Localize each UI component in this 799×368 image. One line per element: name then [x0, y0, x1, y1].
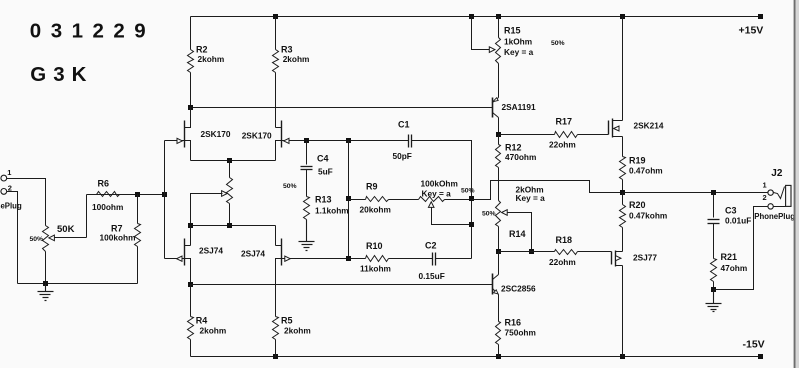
svg-text:47ohm: 47ohm	[721, 263, 748, 273]
resistor R19	[620, 157, 626, 180]
junction R17 row / R12	[496, 132, 501, 137]
svg-text:R21: R21	[721, 252, 738, 262]
svg-text:2SA1191: 2SA1191	[502, 102, 537, 112]
svg-text:1: 1	[763, 181, 767, 190]
svg-text:C1: C1	[398, 120, 410, 130]
wire 2SC2856 emitter to R16	[498, 295, 500, 322]
svg-text:50pF: 50pF	[393, 151, 412, 161]
wire R14 wiper	[508, 213, 532, 252]
svg-text:2SK170: 2SK170	[201, 129, 231, 139]
junction 2nd stage column / wiper	[469, 222, 474, 227]
junction ground rail / pot	[43, 281, 48, 286]
resistor R3	[273, 50, 279, 73]
window border	[796, 0, 799, 368]
transistor Q7 2SC2856	[492, 274, 494, 295]
svg-text:50%: 50%	[551, 40, 565, 47]
junction R21 / J2 return	[711, 287, 716, 292]
wire output row	[623, 192, 768, 194]
svg-text:100ohm: 100ohm	[92, 202, 123, 212]
svg-text:50%: 50%	[30, 236, 44, 243]
junction R6 row / gate column	[162, 192, 167, 197]
svg-text:22ohm: 22ohm	[549, 257, 576, 267]
wire left 2SJ74 source	[190, 226, 192, 246]
resistor R4	[188, 317, 194, 340]
svg-text:R10: R10	[366, 241, 383, 251]
wire R6 row	[87, 194, 165, 196]
wire R20 top lead	[622, 193, 624, 205]
transistor Q2 2SK170 right	[281, 121, 283, 148]
svg-text:-15V: -15V	[743, 339, 765, 351]
junction 2nd stage column / R9 row	[469, 196, 474, 201]
wire R15 bottom to 2SA1191 emitter	[498, 64, 500, 98]
wire N tail	[191, 160, 276, 162]
wire P tail	[191, 225, 276, 227]
connector J2 pin 1	[768, 190, 773, 195]
svg-text:R2: R2	[196, 45, 208, 55]
wire R7 bottom to ground rail	[137, 247, 139, 284]
svg-text:2: 2	[8, 183, 12, 192]
transistor Q1 2SK170 left	[184, 121, 186, 148]
svg-text:R13: R13	[315, 195, 332, 205]
svg-text:1: 1	[7, 168, 11, 177]
potentiometer R14	[496, 201, 501, 227]
svg-text:2kohm: 2kohm	[284, 326, 311, 336]
svg-text:R3: R3	[281, 45, 293, 55]
wire R15 top lead	[498, 17, 500, 38]
svg-text:R17: R17	[556, 117, 573, 127]
svg-text:2kohm: 2kohm	[198, 54, 225, 64]
transistor Q3 2SJ74 left	[184, 239, 186, 266]
wire 50K pot bottom to ground rail	[45, 252, 47, 284]
wire R18 to 2SJ77 gate	[578, 251, 612, 253]
junction top rail / 2SK214 drain	[620, 14, 625, 19]
svg-text:R12: R12	[505, 143, 522, 153]
svg-text:R5: R5	[281, 316, 293, 326]
resistor R17	[555, 132, 578, 138]
resistor R10	[366, 256, 389, 262]
svg-text:R16: R16	[505, 318, 522, 328]
connector J2 pin 2	[768, 204, 773, 209]
wire R3 bottom to right drain	[275, 73, 277, 128]
connector J1 pin 1	[1, 175, 7, 181]
wire R2 top lead	[190, 17, 192, 50]
wire C3 to R21	[713, 224, 715, 259]
resistor R5	[273, 317, 279, 340]
junction top rail / R15 wiper	[469, 14, 474, 19]
svg-text:1.1kohm: 1.1kohm	[315, 206, 349, 216]
wire R2 bottom to drain bus	[190, 73, 192, 108]
wire R19 bottom lead	[622, 180, 624, 193]
svg-text:20kohm: 20kohm	[360, 205, 391, 215]
wire 2SA1191 collector lead	[498, 118, 500, 135]
junction upper bus / R2	[188, 105, 193, 110]
transistor Q6 2SJ77	[611, 252, 613, 265]
junction R6 row / R7	[135, 192, 140, 197]
potentiometer 50K	[43, 226, 49, 252]
wire 50K wiper to R6	[55, 195, 87, 238]
wire tail pot top lead	[229, 161, 231, 178]
svg-text:031229: 031229	[30, 20, 155, 43]
wire 2SK214 source to R19	[622, 137, 624, 157]
transistor Q4 2SJ74 right	[281, 239, 283, 266]
ground R13	[306, 220, 308, 242]
wire 2nd stage column	[471, 200, 473, 259]
potentiometer tail	[227, 178, 233, 204]
wire C4 to R13	[306, 170, 308, 197]
wire gate row to C1	[307, 140, 409, 142]
svg-text:0.47kohm: 0.47kohm	[629, 211, 667, 221]
wire J2 pin2 return	[714, 207, 768, 290]
junction output row / C3	[711, 190, 716, 195]
wire R15 wiper to rail	[472, 17, 490, 50]
junction feedback column / R9	[346, 196, 351, 201]
transistor U? 2SA1191	[492, 98, 494, 118]
wire 2SK214 drain lead	[622, 17, 624, 121]
junction P tail / tail pot	[227, 223, 232, 228]
wire R18 left lead	[499, 251, 555, 253]
resistor R7	[135, 224, 141, 247]
wire R4 top lead	[190, 285, 192, 317]
svg-text:0.15uF: 0.15uF	[419, 271, 445, 281]
wire 100k pot wiper	[432, 208, 472, 225]
wire C3 top lead	[713, 193, 715, 218]
wire J1 pin1 to 50K pot top	[7, 179, 46, 226]
svg-text:0.47ohm: 0.47ohm	[629, 165, 663, 175]
wire -15V bottom rail	[191, 356, 761, 358]
resistor R6	[97, 192, 120, 197]
svg-text:5uF: 5uF	[318, 167, 333, 177]
wire R10 left lead	[349, 258, 366, 260]
svg-text:+15V: +15V	[739, 25, 764, 37]
wire +15V top rail	[191, 16, 761, 18]
wire 2SJ77 source to rail	[622, 266, 624, 357]
wire lower bus	[191, 284, 493, 286]
svg-text:R6: R6	[98, 179, 110, 189]
svg-text:2SK214: 2SK214	[634, 121, 664, 131]
wire R10 to C2	[389, 258, 433, 260]
resistor R18	[555, 250, 578, 255]
svg-text:750ohm: 750ohm	[505, 328, 536, 338]
resistor R12	[496, 145, 501, 168]
node top rail right end	[758, 14, 763, 19]
wire J1 pin2 to ground rail	[7, 192, 18, 284]
svg-text:R20: R20	[629, 200, 646, 210]
svg-text:R14: R14	[509, 229, 526, 239]
resistor R13	[304, 197, 310, 220]
wire R16 bottom lead	[498, 345, 500, 357]
svg-text:R4: R4	[196, 316, 208, 326]
capacitor C3	[708, 219, 720, 221]
svg-text:2: 2	[763, 193, 767, 202]
junction R18 row / R14	[496, 249, 501, 254]
wire right 2SJ74 source	[275, 226, 277, 246]
svg-text:100kohm: 100kohm	[100, 233, 136, 243]
wire tail pot bottom lead	[229, 204, 231, 226]
svg-text:2SK170: 2SK170	[242, 131, 272, 141]
wire right gates row	[294, 258, 349, 260]
capacitor C4	[301, 166, 313, 168]
wire R14 bottom lead	[498, 227, 500, 252]
svg-text:50%: 50%	[283, 183, 297, 190]
wire R3 top lead	[275, 17, 277, 50]
svg-text:1kOhm: 1kOhm	[504, 37, 532, 47]
junction N tail / tail pot	[227, 158, 232, 163]
svg-text:22ohm: 22ohm	[549, 140, 576, 150]
svg-text:Key = a: Key = a	[422, 189, 452, 199]
svg-text:50K: 50K	[57, 224, 75, 235]
resistor R20	[620, 205, 626, 228]
svg-text:2SC2856: 2SC2856	[501, 284, 536, 294]
wire R9 left lead	[349, 199, 366, 201]
svg-text:100kOhm: 100kOhm	[421, 179, 458, 189]
wire 100k pot right lead	[445, 199, 472, 201]
ground R21	[713, 290, 715, 304]
potentiometer R? 100kOhm	[419, 197, 445, 202]
wire 2SC2856 collector lead	[498, 252, 500, 275]
wire C2 right lead	[436, 258, 472, 260]
junction bottom rail / 2SJ77 source	[620, 354, 625, 359]
svg-text:2kohm: 2kohm	[283, 54, 310, 64]
svg-text:2kohm: 2kohm	[200, 326, 227, 336]
wire R17 to 2SK214 gate	[578, 134, 609, 136]
wire R12 bottom to R14	[498, 168, 500, 201]
resistor R2	[188, 50, 194, 73]
junction bottom rail / R16	[496, 354, 501, 359]
wire feedback column	[348, 141, 350, 259]
svg-text:J2: J2	[771, 168, 783, 179]
wire R20 bottom to 2SJ77 drain	[622, 228, 624, 252]
svg-text:11kohm: 11kohm	[360, 264, 391, 274]
svg-text:2SJ74: 2SJ74	[241, 249, 265, 259]
wire input ground rail	[18, 283, 138, 285]
wire R4 bottom lead	[190, 340, 192, 357]
transistor Q5 2SK214	[608, 121, 610, 135]
wire C1 right to 2nd stage column	[412, 141, 472, 200]
svg-text:R18: R18	[556, 235, 573, 245]
connector J1 pin 2	[1, 189, 7, 195]
wire tail pot wiper loop	[191, 194, 223, 226]
svg-text:C2: C2	[425, 241, 437, 251]
resistor R16	[496, 322, 501, 345]
capacitor C2	[432, 253, 434, 266]
svg-text:Key = a: Key = a	[504, 47, 534, 57]
svg-text:Key = a: Key = a	[516, 193, 546, 203]
resistor R21	[711, 259, 717, 282]
svg-text:R19: R19	[629, 156, 646, 166]
capacitor C1	[408, 135, 410, 148]
resistor R9	[366, 197, 389, 202]
svg-text:2SJ74: 2SJ74	[199, 246, 223, 256]
wire input node column	[164, 141, 166, 259]
junction top rail / R15	[496, 14, 501, 19]
wire R5 bottom lead	[275, 340, 277, 357]
svg-text:R9: R9	[366, 182, 378, 192]
junction top rail / R3	[273, 14, 278, 19]
wire left 2SK170 drain	[185, 108, 191, 128]
junction R18 row / wiper	[529, 249, 534, 254]
wire R21 bottom lead	[713, 282, 715, 290]
svg-text:50%: 50%	[461, 188, 475, 195]
junction gate row / C4	[304, 138, 309, 143]
wire feedback riser to output	[472, 181, 623, 200]
wire R17 left lead	[499, 134, 555, 136]
svg-text:0.01uF: 0.01uF	[725, 216, 751, 226]
svg-text:C4: C4	[317, 154, 329, 164]
potentiometer R15	[496, 38, 501, 64]
svg-text:50%: 50%	[482, 211, 496, 218]
wire upper bus	[191, 107, 493, 109]
connector J2 phone plug symbol	[774, 187, 785, 199]
wire R7 top lead	[137, 195, 139, 224]
node bottom rail right end	[758, 354, 763, 359]
wire R9 to 100k pot	[389, 199, 419, 201]
svg-text:G3K: G3K	[30, 63, 93, 86]
svg-text:PhonePlug: PhonePlug	[0, 201, 22, 210]
wire R12 top lead	[498, 135, 500, 145]
ground input	[45, 284, 47, 292]
junction gate row / feedback column	[346, 138, 351, 143]
junction bottom rail / R5	[273, 354, 278, 359]
svg-text:470ohm: 470ohm	[505, 152, 536, 162]
junction output / R19 R20	[620, 190, 625, 195]
junction P tail / wiper	[188, 223, 193, 228]
wire C4 top lead	[306, 141, 308, 165]
svg-text:C3: C3	[725, 206, 737, 216]
svg-text:2SJ77: 2SJ77	[633, 253, 657, 263]
junction feedback column / R10	[346, 256, 351, 261]
svg-text:PhonePlug: PhonePlug	[754, 212, 795, 221]
svg-text:R15: R15	[504, 26, 521, 36]
junction lower bus / left drain	[188, 282, 193, 287]
